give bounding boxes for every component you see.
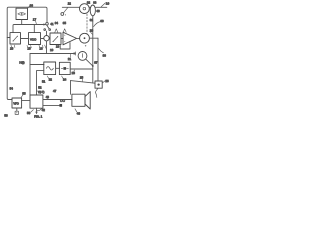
motor M1 circle <box>80 33 90 43</box>
pot wiper arm <box>86 59 93 66</box>
wire head stem <box>21 20 23 25</box>
svg-text:36: 36 <box>30 4 34 8</box>
wire main frame loop: switch lead up, across top, down left side to VFO <box>7 7 47 99</box>
speaker LS1 box <box>72 94 85 106</box>
svg-text:33: 33 <box>93 0 97 4</box>
label 38 leader curl <box>99 49 104 53</box>
wiper node dot <box>92 65 94 67</box>
svg-text:41: 41 <box>50 22 54 26</box>
labels under box12 13 <box>39 45 43 47</box>
label 46 leader <box>75 109 77 112</box>
svg-text:23: 23 <box>72 71 76 75</box>
svg-text:52: 52 <box>38 85 42 89</box>
tape line middle <box>89 6 90 8</box>
label 19 leader <box>45 45 47 49</box>
wire big box to speaker <box>43 99 72 101</box>
svg-text:VFO: VFO <box>13 101 18 105</box>
node circles 60 <box>60 100 62 102</box>
wire feedback horizontal to pot <box>30 53 75 55</box>
pot R1 circle <box>78 52 87 61</box>
svg-text:38: 38 <box>103 54 107 58</box>
switch S1 arm <box>47 25 49 29</box>
VFO ground stem <box>16 108 18 111</box>
label 10 leader <box>101 3 105 7</box>
wire box12 to amp <box>61 38 63 40</box>
box 12 (filter, slash symbol) <box>50 33 61 45</box>
labels under boxes 16 15 <box>11 45 15 47</box>
box 16 slash <box>13 36 17 41</box>
svg-text:10: 10 <box>106 1 110 5</box>
svg-text:39: 39 <box>100 19 104 23</box>
tape line right <box>96 6 107 8</box>
wire summer to box 12 <box>48 37 51 39</box>
box 26 (pickup, dot) <box>95 81 102 88</box>
label 24 leader <box>62 76 64 79</box>
label 21 leader <box>69 54 71 57</box>
svg-text:37: 37 <box>94 61 98 65</box>
pot interior mark <box>81 54 83 58</box>
speaker horn <box>85 92 90 109</box>
svg-text:FIG. 1: FIG. 1 <box>34 114 42 118</box>
wire switch to summer <box>46 31 48 35</box>
wire feedback down the middle <box>29 54 31 96</box>
bus arrowhead <box>44 24 45 25</box>
label 39 leader <box>94 22 101 27</box>
svg-text:19: 19 <box>50 48 54 52</box>
svg-text:50: 50 <box>27 111 31 115</box>
wire down to speaker <box>70 81 72 95</box>
summer node circle <box>44 36 49 41</box>
svg-text:H(f): H(f) <box>19 61 24 65</box>
svg-text:42: 42 <box>42 108 46 112</box>
op-amp A1 (triangle) <box>63 32 77 45</box>
svg-text:56: 56 <box>4 113 8 117</box>
svg-text:24: 24 <box>63 78 67 82</box>
wire feedback from summer down <box>46 41 48 54</box>
sine symbol <box>46 67 53 70</box>
head H1 gap symbol <box>18 13 26 16</box>
wire motor to capstan shaft rail <box>89 37 98 39</box>
arrowhead into pot <box>74 52 76 55</box>
label 25 leader <box>81 79 83 82</box>
svg-text:20: 20 <box>90 28 94 32</box>
labels under VCO 15 14 <box>27 45 31 47</box>
svg-text:35: 35 <box>63 21 67 25</box>
svg-text:31: 31 <box>90 18 94 22</box>
svg-text:18: 18 <box>56 45 60 49</box>
dot symbol <box>63 67 66 70</box>
svg-text:Y(t-T): Y(t-T) <box>38 90 45 94</box>
pinch roller ellipse <box>90 5 95 16</box>
head H1 (record/play head box) <box>16 8 28 19</box>
stem arrow <box>36 112 38 114</box>
tape guide leader <box>64 8 68 13</box>
label 34 leader <box>55 29 58 33</box>
label 20 leader <box>91 32 93 34</box>
svg-text:32: 32 <box>87 0 91 4</box>
big box bottom stem <box>36 108 38 113</box>
roller shaft rail down to box 26 <box>92 16 94 66</box>
svg-text:12: 12 <box>68 2 72 6</box>
label 27 leader <box>95 88 98 97</box>
svg-text:16: 16 <box>10 47 14 51</box>
capstan center mark <box>83 7 86 10</box>
wire sine out left <box>37 71 44 95</box>
label 17 leader <box>35 21 38 24</box>
svg-text:25: 25 <box>80 75 84 79</box>
svg-text:34: 34 <box>55 21 59 25</box>
svg-text:22: 22 <box>49 78 53 82</box>
wire dot box out to node <box>70 66 93 83</box>
wire VFO to big box <box>22 100 30 102</box>
wire VCO to summer <box>41 38 44 40</box>
svg-text:VCO: VCO <box>30 37 37 41</box>
svg-text:21: 21 <box>68 57 72 61</box>
svg-text:55: 55 <box>22 92 26 96</box>
svg-text:48: 48 <box>46 95 50 99</box>
wire amp to motor <box>77 37 80 39</box>
box 14 VCO <box>29 33 41 45</box>
svg-text:47: 47 <box>53 89 57 93</box>
svg-text:13: 13 <box>39 47 43 51</box>
svg-text:46: 46 <box>77 112 81 116</box>
svg-text:54: 54 <box>10 86 14 90</box>
label 22 leader <box>47 76 49 79</box>
label 36 leader <box>28 6 31 9</box>
big box 28 (delay) <box>30 95 43 108</box>
stub to label 42 <box>37 108 42 110</box>
svg-text:15: 15 <box>27 47 31 51</box>
switch S1 pivot <box>46 22 49 25</box>
wire amp feedback U-loop <box>60 43 70 49</box>
label 35 leader <box>63 29 66 33</box>
label 26 leader <box>102 81 105 83</box>
box 16 (equalizer, slash symbol) <box>10 33 21 44</box>
wire node rail to box 26 <box>71 81 96 84</box>
svg-text:26: 26 <box>105 79 109 83</box>
tape line left <box>62 6 79 8</box>
wire rail down to box 26 <box>97 38 99 81</box>
junction smudge <box>85 45 86 46</box>
wire branch to sine box <box>30 64 44 66</box>
tape guide circle <box>61 13 64 16</box>
wire stub from left rail to box 16 <box>7 37 10 39</box>
label 48 leader <box>47 98 49 99</box>
box 24 (modulator, dot symbol) <box>59 62 70 74</box>
label 50 leader <box>31 110 34 112</box>
svg-text:51: 51 <box>42 80 46 84</box>
box 22 sine shaper <box>44 62 56 75</box>
capstan shaft dashed link <box>86 14 88 33</box>
label 23 leader <box>73 70 76 72</box>
wire branch down to VCO box <box>33 25 35 33</box>
wire big box lower out <box>43 104 60 106</box>
terminal blob <box>59 104 62 107</box>
svg-text:40: 40 <box>96 9 100 13</box>
switch contact a <box>44 29 46 31</box>
op-amp input dots <box>63 34 66 37</box>
box 12 slash <box>53 37 58 42</box>
VFO ground symbol <box>15 111 18 114</box>
wire bus from head to switch <box>13 25 45 33</box>
capstan C1 circle <box>80 4 90 14</box>
wire sine box to dot box <box>56 67 60 69</box>
label 55 leader <box>21 95 23 98</box>
VFO box 54 <box>12 98 22 108</box>
switch contact b <box>49 29 51 31</box>
wire box16 to VCO <box>21 38 29 40</box>
